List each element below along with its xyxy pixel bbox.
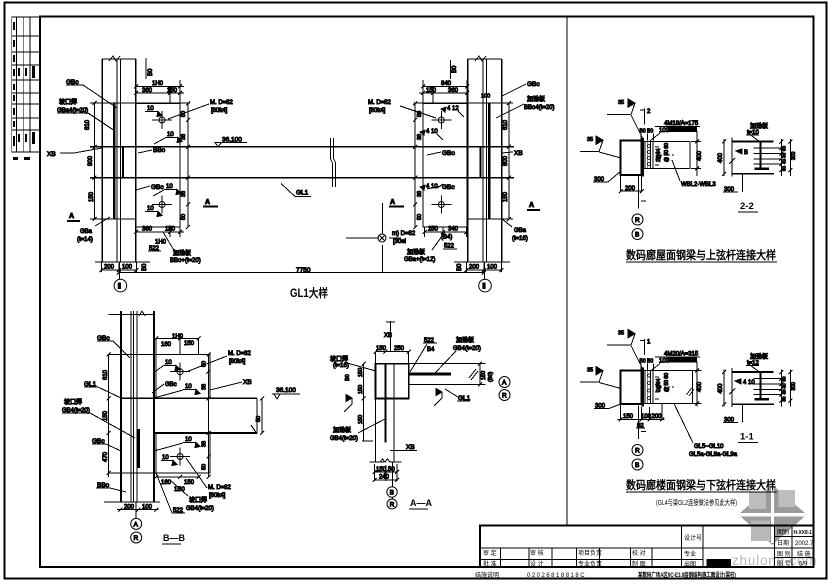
left margin revision table grid xyxy=(12,17,40,152)
level mark 36.100 xyxy=(215,136,247,146)
bolt note M D=82 left xyxy=(168,100,234,119)
bottom margin text row xyxy=(475,571,736,579)
top stub right with B0 xyxy=(451,60,458,79)
2-2 elev left dim 400 xyxy=(718,139,726,176)
A-A grid bubble B bottom xyxy=(387,487,397,497)
B-B label weld GB4 xyxy=(62,398,135,438)
label GBa t=16 right xyxy=(501,218,528,242)
svg-text:A: A xyxy=(502,380,507,387)
svg-text:B0: B0 xyxy=(647,129,653,135)
B-B upper gusset plate xyxy=(109,354,210,398)
svg-text:38: 38 xyxy=(202,384,208,390)
svg-text:100: 100 xyxy=(142,504,153,510)
bolt left top xyxy=(152,111,172,129)
A-A lower left dimension xyxy=(358,398,373,441)
2-2 cut mark bottom xyxy=(639,175,646,208)
svg-text:专业: 专业 xyxy=(684,550,696,558)
B-B weld arrow 10 upper xyxy=(153,360,180,373)
svg-text:2@64: 2@64 xyxy=(656,378,662,392)
plate left connection xyxy=(136,104,180,228)
svg-text:GBa: GBa xyxy=(514,228,527,234)
svg-text:B: B xyxy=(390,490,394,497)
svg-text:(GL4与梁GL2连接做法参见此大样): (GL4与梁GL2连接做法参见此大样) xyxy=(656,497,737,507)
1-1 column box xyxy=(621,370,642,404)
2-2 beam xyxy=(643,141,690,168)
B-B column xyxy=(104,311,160,502)
2-2 caption xyxy=(626,248,777,262)
svg-text:38: 38 xyxy=(202,441,208,447)
svg-text:1-1: 1-1 xyxy=(740,432,754,443)
2-2 elev arrow B xyxy=(736,149,748,156)
2-2 grid bubble B xyxy=(632,229,643,240)
svg-text:B0: B0 xyxy=(457,263,463,271)
svg-text:50: 50 xyxy=(202,464,208,470)
svg-text:1H0: 1H0 xyxy=(152,81,164,87)
svg-text:XB: XB xyxy=(243,379,252,386)
B-B title xyxy=(162,533,185,544)
svg-text:GBc: GBc xyxy=(442,184,455,191)
svg-text:100: 100 xyxy=(487,265,498,271)
svg-text:400: 400 xyxy=(718,383,724,394)
svg-text:2-2: 2-2 xyxy=(740,201,754,212)
svg-text:35: 35 xyxy=(587,137,593,143)
svg-text:(t=14): (t=14) xyxy=(77,237,93,243)
svg-text:2002.7: 2002.7 xyxy=(795,541,814,547)
weld arrow 10 left-b xyxy=(154,132,182,144)
A-A column lines below xyxy=(370,364,402,509)
svg-text:Ⅱ: Ⅱ xyxy=(118,282,122,291)
1-1 grid bubble R xyxy=(632,445,643,456)
svg-text:(t=16): (t=16) xyxy=(512,236,528,242)
B-B bolt note upper xyxy=(186,351,252,372)
svg-text:40: 40 xyxy=(782,383,787,389)
beam break symbol xyxy=(331,138,336,187)
label GBc top-right xyxy=(502,81,540,96)
svg-text:800: 800 xyxy=(503,155,509,166)
2-2 inner dim text xyxy=(656,143,670,162)
svg-text:B: B xyxy=(635,232,639,239)
svg-text:设计号: 设计号 xyxy=(684,534,702,542)
top stub left with B0 xyxy=(146,58,154,79)
svg-text:B: B xyxy=(744,150,748,156)
svg-text:02026818818C: 02026818818C xyxy=(527,573,586,579)
A-A weld symbol right xyxy=(434,389,442,407)
A-A label stiffener GB4 xyxy=(435,336,481,373)
1-1 cut mark top xyxy=(640,339,651,355)
column left GL1 xyxy=(102,56,136,262)
1-1 inner dim text xyxy=(656,373,670,392)
label GBc top-left leader xyxy=(66,79,117,108)
B-B grid bubble R xyxy=(131,532,142,543)
svg-text:校 对: 校 对 xyxy=(632,549,646,557)
2-2 weld flag top xyxy=(607,99,643,139)
svg-text:坡口焊: 坡口焊 xyxy=(59,98,77,106)
svg-text:GL1大样: GL1大样 xyxy=(290,286,328,300)
svg-text:日期: 日期 xyxy=(777,539,789,547)
svg-text:360: 360 xyxy=(448,88,459,94)
label stiffener GBa right-bottom xyxy=(404,232,445,263)
1-1 label stiffener t=12 xyxy=(746,353,768,373)
bolt left bottom xyxy=(152,196,172,214)
A-A right end dimension xyxy=(473,362,495,387)
dimension top of right plate xyxy=(419,80,490,103)
A-A grid bubble R right xyxy=(499,390,510,401)
svg-text:40: 40 xyxy=(782,152,787,158)
svg-text:300: 300 xyxy=(791,151,797,160)
svg-text:38: 38 xyxy=(417,134,423,140)
svg-text:5/9: 5/9 xyxy=(799,562,808,568)
2-2 right dim 400 xyxy=(691,131,703,176)
label GBa t=14 xyxy=(77,217,110,243)
svg-text:GBc: GBc xyxy=(151,184,164,191)
2-2 label stiffener t=10 xyxy=(746,122,768,142)
svg-text:A—A: A—A xyxy=(410,498,432,508)
label weld plate left xyxy=(57,98,115,131)
svg-text:R: R xyxy=(390,502,395,509)
dimension left side of right plate xyxy=(413,102,423,230)
section mark A far-right xyxy=(527,202,540,210)
svg-text:坡口焊: 坡口焊 xyxy=(64,398,82,406)
B-B label XB xyxy=(210,379,252,390)
axis cross symbol xyxy=(346,203,401,273)
2-2 grid bubble R xyxy=(632,214,643,225)
svg-text:设 计: 设 计 xyxy=(530,560,544,568)
svg-text:38: 38 xyxy=(181,134,187,140)
plate right connection xyxy=(423,104,467,228)
svg-text:GBo: GBo xyxy=(442,150,455,157)
svg-text:360: 360 xyxy=(142,227,153,233)
svg-text:150: 150 xyxy=(623,414,634,420)
svg-text:GBc: GBc xyxy=(527,81,540,88)
svg-text:840: 840 xyxy=(441,81,452,87)
svg-text:1H0: 1H0 xyxy=(172,334,184,340)
svg-text:BBo: BBo xyxy=(153,147,166,154)
svg-text:340: 340 xyxy=(448,227,459,233)
svg-text:250: 250 xyxy=(428,227,439,233)
B-B grid bubble A xyxy=(131,502,142,529)
svg-text:图 别: 图 别 xyxy=(777,550,791,558)
label XB right leader xyxy=(502,150,523,157)
1-1 bolt strip xyxy=(645,370,674,403)
B-B label GBc mid xyxy=(92,438,121,451)
A-A weld flag left xyxy=(344,395,352,413)
svg-text:150: 150 xyxy=(167,88,178,94)
B-B bolt note lower xyxy=(186,458,232,499)
svg-text:200: 200 xyxy=(652,414,663,420)
svg-text:150: 150 xyxy=(358,415,364,424)
svg-text:2@64: 2@64 xyxy=(656,148,662,162)
svg-text:50: 50 xyxy=(256,416,262,422)
svg-text:GBa: GBa xyxy=(80,229,93,235)
svg-text:M. D=82: M. D=82 xyxy=(368,100,392,106)
A-A gusset square xyxy=(376,364,409,399)
svg-text:200: 200 xyxy=(625,186,636,192)
svg-text:300: 300 xyxy=(791,382,797,391)
svg-text:36.100: 36.100 xyxy=(276,387,296,394)
svg-text:R: R xyxy=(635,448,640,455)
label GBc mid-left xyxy=(136,184,164,191)
2-2 column box xyxy=(621,141,642,176)
2-2 end plate xyxy=(642,138,644,177)
svg-text:150: 150 xyxy=(503,191,509,202)
svg-text:结施说明: 结施说明 xyxy=(475,571,499,579)
title block texts unit column xyxy=(684,534,702,568)
svg-text:加劲板: 加劲板 xyxy=(333,426,351,434)
dimension column right outer xyxy=(503,101,511,221)
svg-text:某数码广场A区9C-E3.9层钢结构施工图设计(梁柱): 某数码广场A区9C-E3.9层钢结构施工图设计(梁柱) xyxy=(638,571,736,579)
svg-text:[80k4]: [80k4] xyxy=(229,359,246,365)
1-1 title xyxy=(738,432,758,443)
2-2 title xyxy=(738,201,758,212)
svg-text:坡口焊: 坡口焊 xyxy=(189,496,207,504)
splice line top left xyxy=(90,103,190,219)
dimension column left outer xyxy=(85,101,97,221)
svg-text:审 核: 审 核 xyxy=(530,549,544,557)
B-B bottom dimension of plate xyxy=(154,475,200,493)
watermark pinwheel logo xyxy=(737,484,808,546)
label BBo xyxy=(138,147,166,154)
grid bubble left column xyxy=(114,262,127,292)
A-A top vertical stub XB xyxy=(384,321,395,352)
1-1 elev left dim 400 xyxy=(718,370,726,407)
svg-text:50: 50 xyxy=(782,396,787,402)
svg-text:7750: 7750 xyxy=(296,267,311,274)
label GL1 on beam xyxy=(281,184,311,197)
1-1 bottom dim 150 100 200 xyxy=(618,404,665,429)
svg-text:200: 200 xyxy=(469,265,480,271)
svg-text:GL5a·GL8a·GL9a: GL5a·GL8a·GL9a xyxy=(689,452,738,458)
svg-text:BBo+(t=20): BBo+(t=20) xyxy=(170,258,201,264)
svg-text:4 10: 4 10 xyxy=(426,129,438,135)
svg-text:R: R xyxy=(635,217,640,224)
A-A top dimension xyxy=(374,346,435,364)
svg-text:XB: XB xyxy=(406,444,415,451)
svg-text:@ 50 80: @ 50 80 xyxy=(664,143,670,162)
svg-text:800: 800 xyxy=(88,155,94,166)
svg-text:B0: B0 xyxy=(452,65,458,73)
B-B label GBc top xyxy=(97,335,130,358)
2-2 elev right dims xyxy=(779,139,797,176)
svg-text:A: A xyxy=(529,202,534,209)
svg-text:150: 150 xyxy=(358,368,364,377)
B-B lower gusset plate xyxy=(109,433,210,473)
svg-text:150: 150 xyxy=(426,88,437,94)
A-A label stiffener GB4 lower xyxy=(330,419,385,442)
2-2 bolt note xyxy=(640,121,701,141)
1-1 label GL5-GL10 xyxy=(674,404,738,459)
dimension column bottom left xyxy=(95,262,150,272)
svg-text:加劲板: 加劲板 xyxy=(456,336,474,344)
svg-text:1H0: 1H0 xyxy=(155,240,167,246)
svg-text:A: A xyxy=(390,199,395,206)
svg-text:M. D=82: M. D=82 xyxy=(228,351,252,357)
svg-text:数码廊楼面钢梁与下弦杆连接大样: 数码廊楼面钢梁与下弦杆连接大样 xyxy=(626,478,776,492)
1-1 cut mark bottom xyxy=(639,406,646,439)
A-A label weld t16 xyxy=(330,355,376,371)
svg-text:图别: 图别 xyxy=(777,528,789,536)
svg-text:项目负责: 项目负责 xyxy=(578,549,602,557)
svg-text:4 12: 4 12 xyxy=(447,106,459,112)
1-1 end plate elevation xyxy=(729,368,781,407)
svg-text:M. D=82: M. D=82 xyxy=(208,485,232,491)
svg-text:B0: B0 xyxy=(142,263,148,271)
splice line top right xyxy=(414,103,514,219)
title block stamp box xyxy=(707,559,732,567)
2-2 cut mark top xyxy=(640,109,651,125)
title block texts row2 xyxy=(483,549,646,568)
svg-text:数码廊屋面钢梁与上弦杆连接大样: 数码廊屋面钢梁与上弦杆连接大样 xyxy=(626,248,776,262)
B-B weld arrow 10 mid xyxy=(154,384,200,398)
svg-text:150: 150 xyxy=(358,385,364,394)
svg-text:[80k4]: [80k4] xyxy=(211,108,228,114)
svg-text:GB4(t=20): GB4(t=20) xyxy=(453,346,481,352)
svg-text:GL1: GL1 xyxy=(296,190,309,197)
svg-text:150: 150 xyxy=(376,346,387,352)
1-1 end plate xyxy=(642,367,644,406)
svg-text:38: 38 xyxy=(181,191,187,197)
1-1 weld flag left xyxy=(580,367,621,389)
A-A beam lines xyxy=(409,364,478,385)
svg-text:150: 150 xyxy=(481,371,487,380)
B-B level 36.100 xyxy=(272,387,300,399)
svg-text:出图: 出图 xyxy=(684,560,696,568)
B-B bottom dimension column xyxy=(117,504,159,511)
weld arrow 412 right-a xyxy=(441,106,464,117)
1-1 label 300 xyxy=(594,404,621,410)
svg-text:审 定: 审 定 xyxy=(483,549,497,557)
2-2 label WBL2-WBL3 xyxy=(672,160,716,188)
svg-text:GBa+(t=12): GBa+(t=12) xyxy=(404,257,435,263)
title block outer xyxy=(480,526,813,567)
svg-text:M. D=82: M. D=82 xyxy=(210,100,234,106)
svg-text:专业负责: 专业负责 xyxy=(578,560,602,568)
dimension column bottom right xyxy=(454,262,510,272)
svg-text:50: 50 xyxy=(782,165,787,171)
svg-text:(t=16): (t=16) xyxy=(333,363,349,369)
section mark A right-inner xyxy=(389,199,404,207)
B-B label BBo xyxy=(96,482,126,492)
dimension right side of left plate xyxy=(181,102,190,230)
section mark A left-inner xyxy=(203,199,218,207)
svg-text:38: 38 xyxy=(417,191,423,197)
B-B label GL1 xyxy=(84,381,121,398)
dimension bottom of left plate xyxy=(134,227,184,253)
svg-text:150: 150 xyxy=(89,191,95,202)
bolt right bottom xyxy=(431,196,451,214)
svg-text:40: 40 xyxy=(782,158,787,164)
grid bubble right column xyxy=(479,262,492,292)
bolt note M D=82 right xyxy=(368,100,436,118)
A-A label 522 xyxy=(410,338,437,372)
svg-text:35: 35 xyxy=(618,100,624,106)
B-B beam flanges xyxy=(121,398,257,434)
svg-text:GBc: GBc xyxy=(165,382,177,388)
A-A label XB lower xyxy=(390,444,417,451)
svg-text:35: 35 xyxy=(587,368,593,374)
svg-text:A: A xyxy=(69,213,74,220)
svg-text:50: 50 xyxy=(782,376,787,382)
svg-text:100: 100 xyxy=(481,94,490,100)
svg-text:B0: B0 xyxy=(345,374,351,381)
svg-text:40: 40 xyxy=(782,389,787,395)
1-1 elev label 300 xyxy=(723,405,742,424)
bolt right top xyxy=(431,111,451,129)
svg-text:R: R xyxy=(134,535,139,542)
label GBo right xyxy=(427,150,455,157)
weld arrow 10 left-c xyxy=(153,184,181,196)
svg-text:150: 150 xyxy=(184,480,195,486)
1-1 elev right dims xyxy=(779,370,797,407)
svg-text:H-XX8-1: H-XX8-1 xyxy=(794,530,813,536)
B-B left dimension xyxy=(103,352,111,477)
svg-text:160: 160 xyxy=(161,342,172,348)
svg-text:50: 50 xyxy=(388,467,395,473)
svg-text:150: 150 xyxy=(376,467,387,473)
2-2 label 300 xyxy=(593,171,621,183)
svg-text:4 10: 4 10 xyxy=(743,380,755,386)
B-B plate right dim xyxy=(202,352,211,479)
svg-text:150: 150 xyxy=(103,410,109,421)
svg-text:200: 200 xyxy=(104,265,115,271)
weld arrow 10 left-a xyxy=(145,106,162,117)
title block rows xyxy=(480,537,813,560)
label GBc mid-right xyxy=(427,184,455,191)
svg-text:B—B: B—B xyxy=(163,533,185,543)
2-2 end plate elevation xyxy=(729,137,781,176)
2-2 elev label 300 xyxy=(723,174,742,193)
1-1 bolt note xyxy=(640,352,701,372)
overall dimension 7750 xyxy=(117,267,486,275)
svg-text:GB4(t=20): GB4(t=20) xyxy=(186,506,214,512)
svg-text:360: 360 xyxy=(142,88,153,94)
svg-text:50: 50 xyxy=(782,145,787,151)
svg-text:200: 200 xyxy=(124,504,135,510)
label stiffener BBo left-bottom xyxy=(163,232,201,264)
svg-text:R: R xyxy=(502,393,507,400)
A-A grid bubble A right xyxy=(499,377,510,388)
label XB left xyxy=(47,148,102,158)
bolt note 4M D=82 center xyxy=(392,231,416,245)
svg-text:A: A xyxy=(205,199,210,206)
svg-text:加劲板: 加劲板 xyxy=(750,122,768,130)
B-B bolt lower xyxy=(170,448,190,466)
svg-text:160: 160 xyxy=(161,480,172,486)
svg-text:图 号: 图 号 xyxy=(777,561,791,568)
B-B top dimension xyxy=(154,334,200,354)
B-B right end dim 50 xyxy=(256,396,264,435)
svg-text:[80k4]: [80k4] xyxy=(209,493,226,499)
svg-text:制 图: 制 图 xyxy=(632,560,646,568)
svg-text:810: 810 xyxy=(85,119,91,130)
svg-text:B: B xyxy=(635,462,639,469)
svg-text:400: 400 xyxy=(697,150,703,161)
B-B label GBc small xyxy=(152,382,177,393)
svg-text:批 准: 批 准 xyxy=(483,560,497,568)
svg-text:[80k4]: [80k4] xyxy=(369,108,386,114)
svg-text:150: 150 xyxy=(165,227,176,233)
1-1 right dim 400 xyxy=(693,362,703,407)
B-B weld arrow 10 lower xyxy=(154,437,200,451)
B-B label weld GB4 lower xyxy=(170,480,214,512)
svg-text:610: 610 xyxy=(103,369,109,380)
label stiffener right top xyxy=(496,95,555,118)
svg-text:B4: B4 xyxy=(427,347,435,353)
dimension top of left plate xyxy=(134,80,184,103)
svg-text:m) D=82: m) D=82 xyxy=(392,231,416,237)
A-A label GL1 xyxy=(445,389,471,402)
svg-text:470: 470 xyxy=(103,451,109,462)
svg-text:250: 250 xyxy=(394,346,405,352)
